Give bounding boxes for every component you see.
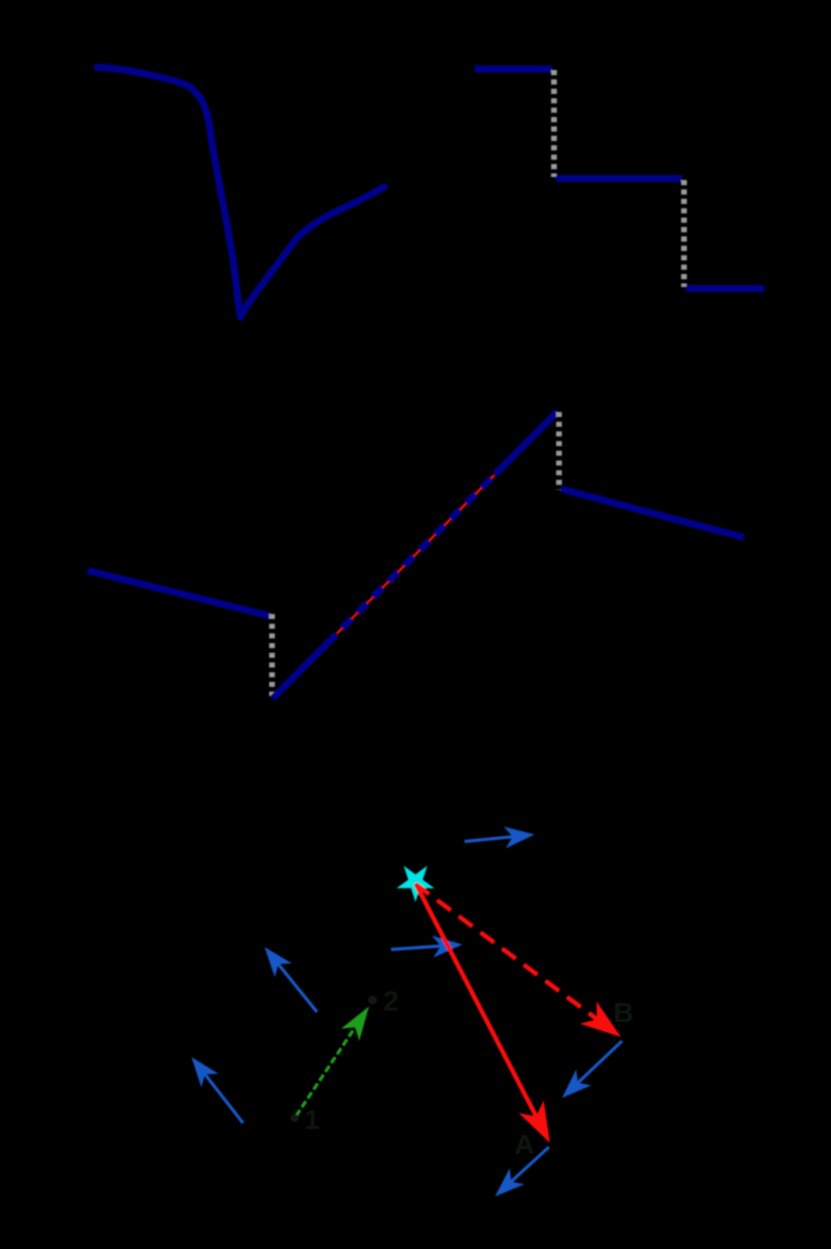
dotted drop 2 xyxy=(681,180,687,287)
curve: force dip (top-left plot) xyxy=(97,67,384,317)
blue velocity arrow at B xyxy=(562,1041,622,1098)
dotted drop right xyxy=(556,412,562,490)
blue velocity arrow top xyxy=(465,827,535,849)
svg-text:A: A xyxy=(514,1129,534,1160)
dotted drop 1 xyxy=(551,70,557,177)
blue velocity arrow upper-left xyxy=(265,947,318,1012)
green dashed displacement arrow 1 to 2 xyxy=(296,1007,369,1117)
dot at point 2 xyxy=(368,996,377,1005)
blue velocity arrow at A xyxy=(495,1147,549,1197)
dot at point 1 xyxy=(291,1114,299,1122)
svg-text:B: B xyxy=(613,997,633,1028)
step level 2 xyxy=(556,175,682,182)
blue velocity arrow lower-left xyxy=(192,1057,244,1123)
red solid displacement arrow star to A xyxy=(416,884,551,1144)
cyan star marker (initial position) xyxy=(397,866,435,902)
step level 1 xyxy=(475,66,553,73)
svg-text:2: 2 xyxy=(383,986,399,1017)
blue velocity arrow middle xyxy=(391,936,463,958)
red dashed interpolation line (under blue dashes) xyxy=(337,475,495,634)
step level 3 xyxy=(686,285,765,292)
sawtooth right descending segment xyxy=(561,489,744,538)
red dashed displacement arrow star to B xyxy=(416,884,622,1037)
dotted drop left xyxy=(269,614,275,696)
sawtooth rising dashed middle part xyxy=(336,474,495,634)
sawtooth rising solid upper part xyxy=(495,412,558,475)
sawtooth left descending segment xyxy=(88,571,271,617)
svg-text:1: 1 xyxy=(304,1104,320,1135)
sawtooth rising solid lower part xyxy=(273,635,337,699)
